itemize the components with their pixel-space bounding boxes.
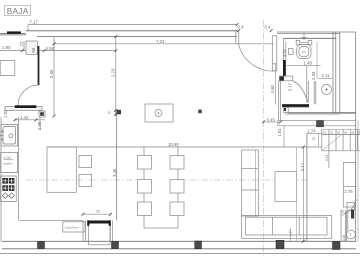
svg-text:01: 01 xyxy=(323,130,327,134)
svg-text:03: 03 xyxy=(337,130,341,134)
svg-text:Cocina Horno: Cocina Horno xyxy=(65,226,80,229)
svg-text:4.58: 4.58 xyxy=(46,46,55,51)
svg-text:7.03: 7.03 xyxy=(156,39,165,44)
svg-text:7.17: 7.17 xyxy=(30,20,39,25)
svg-text:2.11: 2.11 xyxy=(322,73,331,78)
svg-text:3.60: 3.60 xyxy=(270,85,275,94)
svg-text:1.38: 1.38 xyxy=(37,121,42,130)
svg-text:0.46: 0.46 xyxy=(342,235,346,241)
svg-text:.72: .72 xyxy=(19,41,24,48)
svg-text:2.56: 2.56 xyxy=(49,69,54,78)
svg-text:1.02: 1.02 xyxy=(3,109,8,118)
svg-text:.70: .70 xyxy=(312,137,316,142)
svg-text:2.76: 2.76 xyxy=(344,189,353,194)
svg-text:10.90: 10.90 xyxy=(168,142,179,147)
svg-text:2.23: 2.23 xyxy=(111,68,116,77)
svg-text:1.22: 1.22 xyxy=(341,209,345,215)
svg-text:1.81: 1.81 xyxy=(277,128,282,137)
svg-text:1.42: 1.42 xyxy=(20,115,29,120)
svg-text:04: 04 xyxy=(344,130,348,134)
svg-text:1.48: 1.48 xyxy=(304,60,313,65)
svg-text:.12: .12 xyxy=(107,110,112,114)
svg-text:.99: .99 xyxy=(96,210,101,214)
svg-text:.21: .21 xyxy=(284,111,288,116)
svg-text:4.52: 4.52 xyxy=(282,48,287,57)
svg-text:0.91: 0.91 xyxy=(325,155,329,161)
svg-text:0.4: 0.4 xyxy=(238,25,245,30)
svg-text:2.33: 2.33 xyxy=(311,71,316,80)
svg-text:BAJA: BAJA xyxy=(7,7,29,16)
svg-text:3.46: 3.46 xyxy=(112,168,117,177)
svg-text:3.17: 3.17 xyxy=(287,83,292,92)
svg-text:Lavadero: Lavadero xyxy=(3,163,13,166)
svg-text:3.44: 3.44 xyxy=(300,163,305,172)
svg-text:1.74: 1.74 xyxy=(307,129,316,134)
svg-text:.98: .98 xyxy=(31,47,36,54)
svg-text:1.02: 1.02 xyxy=(4,156,11,160)
svg-text:05: 05 xyxy=(351,130,355,134)
svg-text:0.45: 0.45 xyxy=(267,117,276,122)
svg-text:0.4: 0.4 xyxy=(265,25,272,30)
svg-text:1.90: 1.90 xyxy=(2,45,11,50)
svg-text:02: 02 xyxy=(330,130,334,134)
